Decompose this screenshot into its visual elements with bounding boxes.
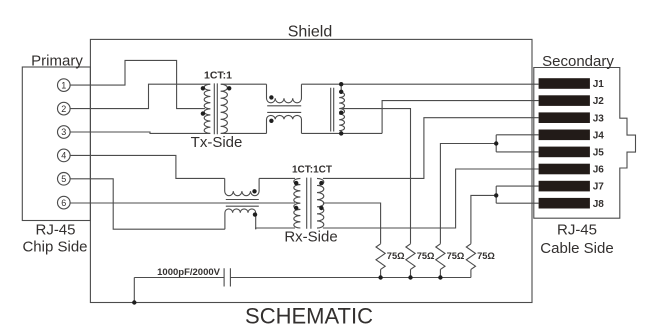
pin circle 4 <box>58 149 71 162</box>
wire pin1 to T1 center-tap (staircase) <box>70 60 205 108</box>
resistor R4 75ohm <box>466 244 475 270</box>
svg-text:J8: J8 <box>593 199 605 210</box>
wire rail riser to J2 <box>382 101 538 134</box>
pin circle 1 <box>58 79 71 92</box>
choke L2 core <box>226 200 259 207</box>
pin circle 3 <box>58 126 71 139</box>
resistor R2 75ohm <box>406 244 415 270</box>
contact bar J7 <box>539 181 590 192</box>
wire pin6 to T3 center-tap <box>70 202 295 204</box>
contact bar J1 <box>539 78 590 89</box>
wire pin2 to T1 primary top <box>70 84 210 108</box>
wire capacitor to shield <box>133 278 135 303</box>
resistor R1 75ohm <box>376 244 385 270</box>
wire choke L2 top to T3 <box>259 177 295 179</box>
svg-text:RJ-45: RJ-45 <box>35 222 75 239</box>
svg-text:Secondary: Secondary <box>542 53 614 70</box>
svg-text:Cable Side: Cable Side <box>540 240 613 257</box>
polarity dot T1 primary center-tap <box>201 111 205 115</box>
svg-text:3: 3 <box>61 127 66 137</box>
wire pin4 to choke L2 top <box>70 155 225 178</box>
transformer T1 core <box>214 83 217 134</box>
wire stub J5 <box>496 151 538 153</box>
svg-text:1CT:1: 1CT:1 <box>204 69 232 81</box>
polarity dot T3 primary center-tap <box>294 206 298 210</box>
autotransformer T2 core <box>331 88 334 132</box>
svg-text:Chip Side: Chip Side <box>22 238 87 255</box>
wire capacitor C1 left lead <box>134 277 224 279</box>
transformer T3 core <box>307 178 311 229</box>
svg-text:Shield: Shield <box>288 24 332 41</box>
wire T3 center-tap to resistor R1 <box>323 203 381 244</box>
choke L2 top winding <box>225 178 259 195</box>
svg-text:J5: J5 <box>593 148 605 159</box>
polarity dot T3 secondary center-tap <box>319 206 323 210</box>
wire stub J8 <box>496 202 538 204</box>
wire stub J4-J5 tie <box>495 135 497 152</box>
contact bar J4 <box>539 130 590 141</box>
wire T1 secondary top to choke L1 <box>221 83 266 85</box>
wire stub J7-J8 tie <box>495 186 497 203</box>
transformer T3 primary winding (Rx-Side) <box>294 178 301 228</box>
wire resistor R4 riser to J7/J8 junction <box>471 195 496 243</box>
wire pin5 to choke L2 bottom <box>70 179 225 229</box>
svg-text:J7: J7 <box>593 182 605 193</box>
pin circle 5 <box>58 173 71 186</box>
svg-text:Primary: Primary <box>31 52 83 69</box>
svg-text:4: 4 <box>61 151 66 161</box>
capacitor C1 plates <box>224 268 230 286</box>
wire stub J4 <box>496 134 538 136</box>
svg-text:75Ω: 75Ω <box>387 251 405 261</box>
contact bar J3 <box>539 112 590 123</box>
polarity dot T2 top <box>339 90 343 94</box>
svg-text:75Ω: 75Ω <box>417 251 435 261</box>
transformer T1 secondary winding <box>221 84 228 133</box>
junction rail R2 <box>408 275 412 279</box>
contact bar J5 <box>539 147 590 158</box>
svg-text:5: 5 <box>61 174 66 184</box>
svg-text:J3: J3 <box>593 113 605 124</box>
junction T2 top on J1 rail <box>339 82 343 86</box>
wire resistor R1 bottom lead <box>380 269 382 277</box>
svg-text:6: 6 <box>61 198 66 208</box>
polarity dot T1 primary top <box>201 86 205 90</box>
transformer T1 primary winding (Tx-Side) <box>204 84 210 133</box>
svg-text:SCHEMATIC: SCHEMATIC <box>245 304 373 329</box>
svg-text:75Ω: 75Ω <box>447 251 465 261</box>
svg-text:J6: J6 <box>593 165 605 176</box>
pin circle 2 <box>58 102 71 115</box>
wire termination common rail <box>230 277 471 279</box>
wire stub J7 <box>496 185 538 187</box>
choke L1 top winding <box>267 84 302 103</box>
svg-text:J2: J2 <box>593 96 605 107</box>
polarity dot T3 secondary top <box>319 181 323 185</box>
wire choke L1 top to J1 rail <box>301 83 538 85</box>
svg-text:1: 1 <box>61 80 66 90</box>
resistor R3 75ohm <box>436 244 445 270</box>
choke L1 core <box>267 106 301 113</box>
pin circle 6 <box>58 196 71 209</box>
polarity dot T1 secondary top <box>227 86 231 90</box>
polarity dot L2 top <box>252 189 256 193</box>
polarity dot L1 bottom <box>269 119 273 123</box>
wire resistor R4 bottom lead <box>470 269 472 277</box>
wire T2 center-tap to resistor R2 <box>343 109 411 244</box>
svg-text:1CT:1CT: 1CT:1CT <box>292 165 332 176</box>
wire resistor R3 riser to J4/J5 junction <box>440 144 496 244</box>
contact bar J6 <box>539 164 590 175</box>
svg-text:75Ω: 75Ω <box>477 251 495 261</box>
junction capacitor-shield <box>132 300 136 304</box>
svg-text:Rx-Side: Rx-Side <box>284 229 337 246</box>
polarity dot L2 bottom <box>253 212 257 216</box>
polarity dot T2 center-tap <box>339 111 343 115</box>
choke L1 bottom winding <box>267 115 302 133</box>
wire pin3 to T1 primary bottom <box>70 132 210 133</box>
choke L2 bottom winding <box>225 209 256 229</box>
junction T2 bottom on rail <box>339 131 343 135</box>
polarity dot L1 top <box>269 95 273 99</box>
RJ-45 cable-side connector box (Secondary) <box>534 68 636 219</box>
wire resistor R2 bottom lead <box>410 269 412 277</box>
svg-text:J4: J4 <box>593 130 605 141</box>
wire choke L2 bottom to T3 <box>256 228 295 229</box>
wire T3 secondary bottom to J6 <box>323 169 539 228</box>
transformer T3 secondary winding <box>317 178 324 228</box>
wire T2 bottom lead <box>340 131 342 134</box>
shield enclosure box <box>90 39 532 302</box>
contact bar J2 <box>539 95 590 106</box>
polarity dot T3 primary top <box>294 181 298 185</box>
svg-text:J1: J1 <box>593 79 605 90</box>
junction J7/J8 node <box>494 193 498 197</box>
junction rail R1 <box>378 275 382 279</box>
svg-text:RJ-45: RJ-45 <box>557 222 597 239</box>
svg-text:1000pF/2000V: 1000pF/2000V <box>157 267 221 278</box>
wire T1 secondary bottom to choke L1 <box>221 132 266 134</box>
svg-text:Tx-Side: Tx-Side <box>191 134 243 151</box>
wire T3 secondary top to J3 <box>323 118 539 179</box>
wire T2 top lead <box>340 84 342 92</box>
svg-text:2: 2 <box>61 104 66 114</box>
RJ-45 chip-side box (Primary) <box>22 67 90 221</box>
autotransformer T2 winding <box>339 92 344 131</box>
wire choke L1 bottom rail <box>301 132 382 134</box>
junction J4/J5 node <box>494 141 498 145</box>
wire resistor R3 bottom lead <box>439 269 441 277</box>
junction rail R3 <box>438 275 442 279</box>
contact bar J8 <box>539 198 590 209</box>
